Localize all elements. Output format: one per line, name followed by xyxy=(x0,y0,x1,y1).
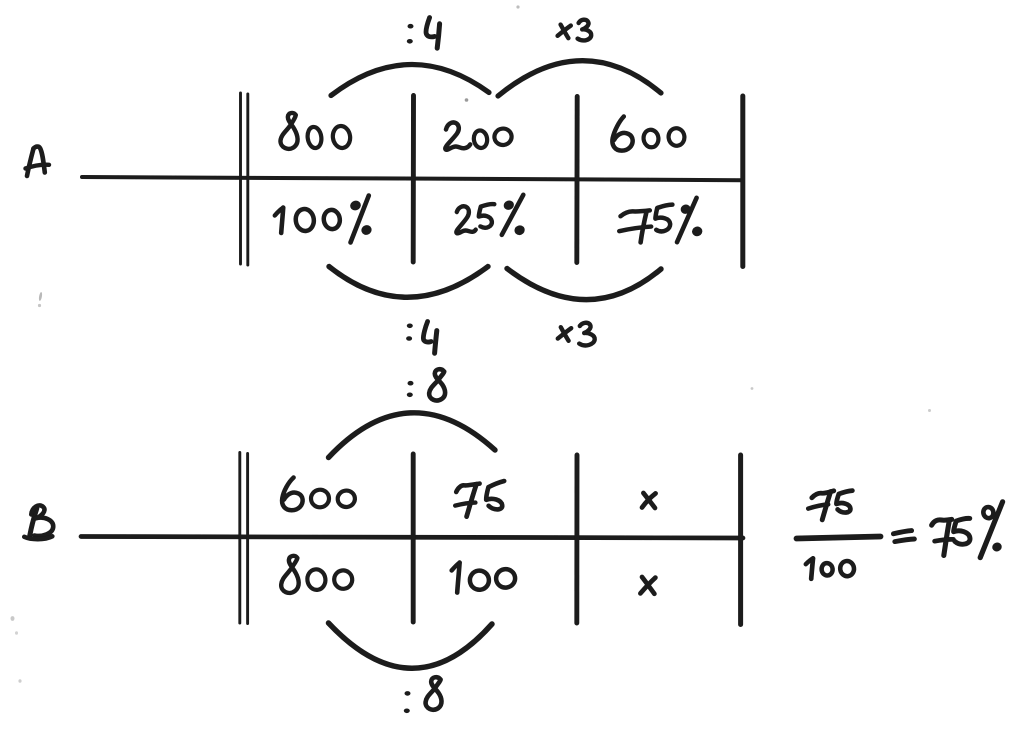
arc top :8 xyxy=(329,413,496,458)
text 800 B xyxy=(281,556,353,593)
text 25% xyxy=(456,195,526,237)
text 600 top xyxy=(612,117,685,151)
arc bottom :8 xyxy=(329,623,493,668)
label :4 top xyxy=(407,18,440,49)
text 600 B xyxy=(282,478,356,511)
label A xyxy=(26,147,50,176)
label :8 top xyxy=(407,369,445,400)
line B xyxy=(81,537,743,539)
fraction denominator 100 xyxy=(806,558,855,578)
text 800 top-left xyxy=(280,113,351,149)
arc bottom x3 xyxy=(507,269,661,300)
double bar A xyxy=(241,93,248,265)
arc bottom :4 xyxy=(329,267,488,298)
text 100% xyxy=(275,196,373,243)
label :8 bottom xyxy=(404,677,442,713)
line A xyxy=(82,177,743,180)
end bar B xyxy=(738,455,743,625)
fraction bar xyxy=(797,537,881,539)
text 75% top xyxy=(619,198,704,243)
text 100 B xyxy=(452,563,517,593)
text 75 B xyxy=(455,481,504,517)
fraction numerator 75 xyxy=(808,491,852,520)
arc top :4 xyxy=(331,64,489,95)
double bar B xyxy=(240,453,248,624)
label x3 bottom xyxy=(558,323,595,346)
arc top x3 xyxy=(498,61,661,96)
result 75% xyxy=(932,502,1003,558)
tick B2 xyxy=(574,455,579,623)
text 200 xyxy=(445,122,512,149)
tick A2 xyxy=(574,97,579,263)
tick B1 xyxy=(411,454,416,622)
end bar A xyxy=(740,96,745,267)
text x bottom xyxy=(640,577,655,594)
label B xyxy=(24,505,53,539)
label :4 bottom xyxy=(406,322,437,354)
equals sign xyxy=(893,531,914,542)
tick A1 xyxy=(411,96,416,263)
label x3 top xyxy=(558,20,592,41)
text x top xyxy=(642,493,656,508)
